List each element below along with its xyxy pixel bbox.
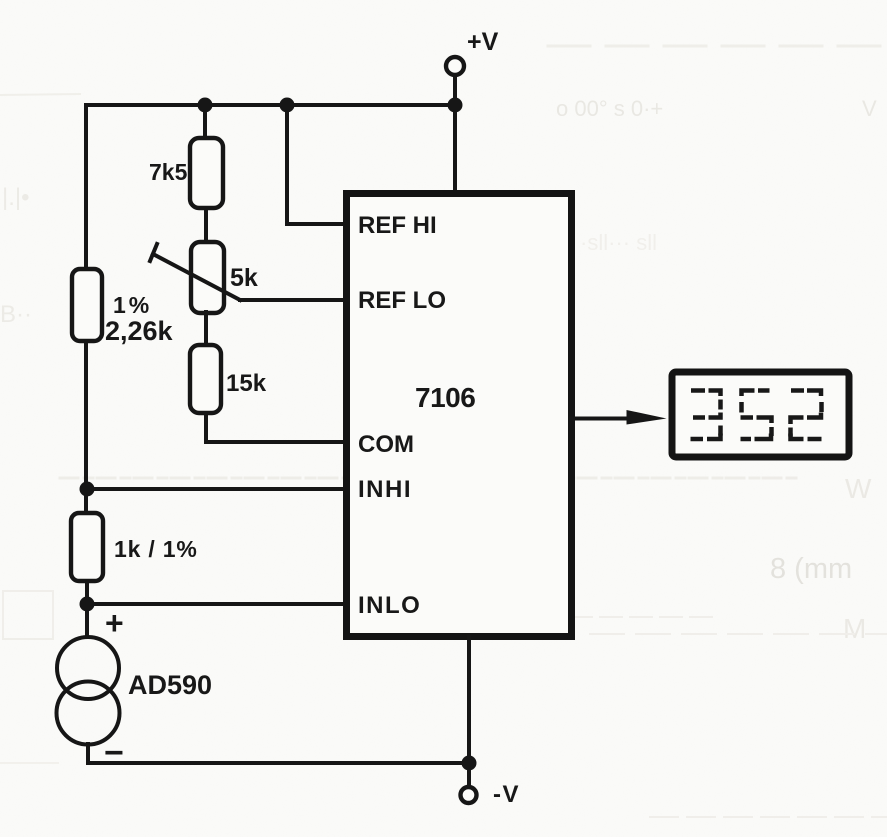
svg-text:M: M [843,613,866,644]
svg-text:COM: COM [358,431,414,458]
wire +V to IC [453,76,457,192]
potentiometer 5k [150,242,240,313]
wire left vertical upper [84,105,88,272]
resistor 15k [190,345,221,413]
wire left vertical lower [85,581,89,637]
svg-text:5k: 5k [230,264,258,292]
resistor 2,26k 1% [72,269,102,341]
digit 3 [691,391,721,440]
wire AD590 to bottom rail [86,744,90,763]
display DS1 box [672,372,849,457]
svg-text:2,26k: 2,26k [105,316,174,346]
wire pot to 15k [204,312,208,346]
svg-text:1k / 1%: 1k / 1% [114,536,198,562]
svg-text:AD590: AD590 [128,670,212,700]
svg-text:−: − [104,734,124,772]
svg-text:B··: B·· [0,301,32,328]
svg-text:+: + [105,605,124,641]
wire junction to REF HI [287,105,346,224]
node +V rail junction [448,98,463,113]
svg-text:+V: +V [467,28,499,56]
node 7k5 branch junction [198,98,213,113]
resistor 7k5 [190,138,223,208]
terminal -V [461,787,477,803]
svg-text:V: V [862,96,877,121]
svg-text:-V: -V [493,781,520,808]
wire bottom rail [88,761,469,765]
digit 2 [791,391,822,440]
wire INHI [87,487,346,491]
wire junction to 7k5 [203,105,207,139]
wire top rail [86,103,455,107]
svg-text:o 00° s 0·+: o 00° s 0·+ [556,96,663,121]
wire IC bottom to -V [467,637,471,762]
svg-text:7k5: 7k5 [149,159,188,185]
IC U1 7106 [347,194,572,637]
wire left vertical middle [84,341,88,514]
svg-text:INLO: INLO [358,592,421,619]
current source AD590 [57,637,120,745]
node REF HI branch junction [280,98,295,113]
svg-text:·sll··· sll: ·sll··· sll [580,230,657,255]
resistor 1k/1% [71,513,103,581]
wire -V stub [467,763,471,787]
wire INLO [87,602,346,606]
wire pot wiper to REF LO [240,298,346,302]
svg-text:W: W [845,473,872,504]
svg-text:15k: 15k [226,370,267,397]
svg-text:1%: 1% [113,292,152,318]
node INLO junction [80,597,95,612]
node -V junction [462,756,477,771]
wire 7k5 to pot [204,208,208,243]
svg-text:|.|•: |.|• [2,184,30,211]
digit 5 [741,391,772,440]
wire IC output to display [571,417,634,421]
svg-text:REF LO: REF LO [358,287,446,314]
svg-text:REF HI: REF HI [358,212,437,239]
arrow to display [627,410,667,425]
wire 15k to COM [206,413,346,442]
terminal +V [446,57,464,75]
svg-text:8 (mm: 8 (mm [770,553,852,585]
svg-text:INHI: INHI [358,476,412,503]
node INHI junction [80,482,95,497]
svg-text:7106: 7106 [415,382,475,413]
